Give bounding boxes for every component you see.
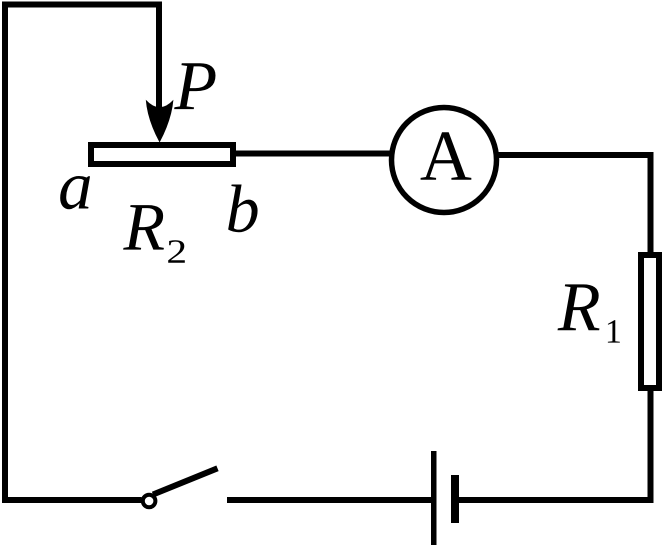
wire: R1 down to bottom-right corner and left to battery (459, 388, 651, 500)
battery negative plate (short) (451, 475, 459, 523)
svg-text:2: 2 (166, 233, 187, 271)
wire: slider stem from top wire down to arrowhead (156, 2, 162, 113)
svg-text:A: A (420, 116, 472, 196)
wire: top-left loop (top horizontal, left vertical, bottom-left horizontal) (5, 5, 159, 501)
arrowhead of slider P (146, 100, 174, 143)
wire: battery to switch (227, 497, 431, 503)
wire: rheostat b to ammeter (234, 151, 392, 157)
resistor R1 body (641, 255, 659, 388)
svg-text:b: b (226, 171, 260, 247)
svg-text:P: P (173, 48, 217, 125)
svg-text:R: R (123, 189, 166, 265)
svg-text:1: 1 (605, 314, 622, 351)
ammeter U1 circle (392, 108, 497, 213)
switch pivot circle (143, 495, 156, 508)
switch lever (153, 468, 218, 494)
rheostat R2 body (91, 145, 233, 164)
svg-text:R: R (557, 269, 601, 346)
battery positive plate (long) (431, 451, 437, 545)
svg-text:a: a (58, 148, 93, 224)
wire: ammeter to top-right corner and down to R1 (496, 155, 651, 253)
